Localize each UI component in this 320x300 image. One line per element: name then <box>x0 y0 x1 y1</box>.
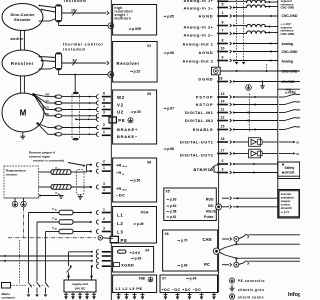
svg-text:I/O-GND: I/O-GND <box>282 80 296 84</box>
svg-text:+R: +R <box>116 162 121 167</box>
svg-text:3: 3 <box>222 168 224 172</box>
svg-text:included: included <box>63 46 85 51</box>
svg-text:Analog-Out 1: Analog-Out 1 <box>182 42 213 47</box>
svg-text:Resolver: Resolver <box>117 61 140 66</box>
svg-text:⇒ p.50: ⇒ p.50 <box>130 179 140 183</box>
svg-text:DIGITAL-IN1: DIGITAL-IN1 <box>185 110 214 115</box>
svg-text:2: 2 <box>103 123 105 127</box>
svg-text:9: 9 <box>222 56 224 60</box>
svg-text:PSTOP: PSTOP <box>196 95 214 100</box>
svg-text:stepper: stepper <box>281 199 291 203</box>
svg-text:Infogl: Infogl <box>288 292 300 298</box>
svg-text:⇒ p.68: ⇒ p.68 <box>164 147 175 151</box>
svg-text:3: 3 <box>103 111 105 115</box>
svg-text:⇒ p.69: ⇒ p.69 <box>178 264 188 268</box>
svg-text:10: 10 <box>221 47 225 51</box>
svg-text:chassis grou: chassis grou <box>238 288 264 292</box>
svg-text:⇒ p.71: ⇒ p.71 <box>281 210 290 214</box>
svg-text:and/or: and/or <box>11 37 25 41</box>
svg-text:Di: Di <box>297 152 300 156</box>
svg-text:1: 1 <box>103 166 105 170</box>
svg-text:included: included <box>64 0 86 3</box>
svg-text:to DGND: to DGND <box>285 90 296 94</box>
svg-text:CNC-GND: CNC-GND <box>282 50 299 54</box>
svg-text:−R: −R <box>116 170 121 175</box>
svg-text:BRAKE+: BRAKE+ <box>117 127 138 132</box>
svg-text:⇒ p.70: ⇒ p.70 <box>178 239 188 243</box>
svg-text:V2: V2 <box>46 99 50 103</box>
svg-text:Analog-In 1+: Analog-In 1+ <box>183 0 213 3</box>
svg-text:Analog-Out 2: Analog-Out 2 <box>182 59 213 64</box>
svg-text:Bint: Bint <box>123 189 128 192</box>
svg-text:V2: V2 <box>117 103 124 108</box>
svg-text:18: 18 <box>219 77 223 81</box>
svg-text:5: 5 <box>222 3 224 7</box>
svg-text:N3: N3 <box>55 229 57 231</box>
svg-text:U2: U2 <box>46 106 50 110</box>
svg-text:2: 2 <box>222 159 224 163</box>
svg-text:SSI: SSI <box>208 204 214 208</box>
svg-text:control: control <box>281 203 290 207</box>
svg-text:DGND: DGND <box>198 77 213 82</box>
svg-text:encoder: encoder <box>281 192 291 196</box>
svg-text:DIGITAL-OUT2: DIGITAL-OUT2 <box>180 153 214 158</box>
svg-text:DIGITAL-OUT1: DIGITAL-OUT1 <box>180 140 214 145</box>
svg-text:ROD: ROD <box>206 198 214 202</box>
svg-text:PE: PE <box>121 238 128 243</box>
svg-text:2: 2 <box>103 217 105 221</box>
svg-text:4: 4 <box>103 104 105 108</box>
svg-text:6: 6 <box>103 91 105 95</box>
svg-text:Bext: Bext <box>123 165 128 168</box>
svg-text:X8: X8 <box>147 161 151 165</box>
svg-text:U2: U2 <box>117 110 124 115</box>
svg-text:⇒ p.52: ⇒ p.52 <box>130 70 140 74</box>
svg-text:W2: W2 <box>46 93 50 97</box>
svg-text:L3: L3 <box>117 229 124 234</box>
svg-text:CNC-GND: CNC-GND <box>282 70 299 74</box>
svg-text:6: 6 <box>222 21 224 25</box>
svg-text:X5: X5 <box>166 190 170 194</box>
svg-text:+R: +R <box>116 186 121 191</box>
svg-text:5: 5 <box>103 98 105 102</box>
svg-text:−DC: −DC <box>116 192 125 197</box>
svg-text:+24V: +24V <box>130 250 141 255</box>
svg-text:1: 1 <box>103 207 105 211</box>
svg-text:N1: N1 <box>55 210 57 212</box>
svg-text:14: 14 <box>221 100 225 104</box>
svg-text:PE-connectio: PE-connectio <box>238 279 265 283</box>
svg-text:...: ... <box>19 140 21 143</box>
svg-text:AGND: AGND <box>198 50 213 55</box>
svg-text:W2: W2 <box>117 95 125 100</box>
svg-text:PC: PC <box>204 262 210 267</box>
svg-text:+DC −DC +DC −DC: +DC −DC +DC −DC <box>162 288 202 292</box>
svg-text:1: 1 <box>103 130 105 134</box>
svg-text:Analog-In 2+: Analog-In 2+ <box>183 25 213 30</box>
svg-text:L1: L1 <box>117 213 124 218</box>
svg-text:24V DC: 24V DC <box>75 286 86 290</box>
svg-text:ENABLE: ENABLE <box>193 127 214 132</box>
svg-text:12: 12 <box>221 116 225 120</box>
svg-text:drive/AS: drive/AS <box>281 206 292 210</box>
svg-text:X2: X2 <box>147 44 151 48</box>
svg-text:multiturn: multiturn <box>115 17 132 21</box>
svg-text:7: 7 <box>222 29 224 33</box>
svg-text:16: 16 <box>221 137 225 141</box>
svg-text:8: 8 <box>222 39 224 43</box>
svg-text:X7: X7 <box>162 277 166 281</box>
svg-text:Analog: Analog <box>282 59 294 63</box>
svg-text:XGND: XGND <box>121 263 134 268</box>
svg-text:Safety: Safety <box>285 166 295 170</box>
svg-text:11: 11 <box>221 108 225 112</box>
svg-text:3: 3 <box>103 182 105 186</box>
svg-text:NSTOP: NSTOP <box>196 102 214 107</box>
svg-text:L2: L2 <box>117 221 124 226</box>
svg-text:circuit: circuit <box>285 171 296 175</box>
svg-text:CAN: CAN <box>202 237 211 242</box>
svg-text:X9: X9 <box>147 92 151 96</box>
svg-text:⇒ p.67: ⇒ p.67 <box>164 107 175 111</box>
svg-text:⇒ p.63: ⇒ p.63 <box>167 198 177 202</box>
svg-text:Encoder: Encoder <box>14 17 31 22</box>
svg-text:Analog-In 1−: Analog-In 1− <box>183 6 213 11</box>
svg-text:CNC-GND: CNC-GND <box>281 32 295 36</box>
svg-text:evaluation: evaluation <box>281 195 295 199</box>
svg-text:Pulse: Pulse <box>204 215 213 219</box>
svg-text:⇒ p.49: ⇒ p.49 <box>131 257 141 261</box>
svg-text:Analog: Analog <box>282 42 294 46</box>
svg-text:15: 15 <box>221 125 225 129</box>
svg-text:Resolver: Resolver <box>11 61 34 66</box>
svg-text:CNC-GND: CNC-GND <box>282 14 299 18</box>
svg-text:Analog-In 2−: Analog-In 2− <box>183 33 213 38</box>
svg-text:⇒ p.61: ⇒ p.61 <box>167 215 177 219</box>
svg-text:17: 17 <box>221 149 225 153</box>
svg-text:AGND: AGND <box>198 14 213 19</box>
svg-text:⇒ p.64: ⇒ p.64 <box>167 204 177 208</box>
svg-text:⇒ p.66: ⇒ p.66 <box>164 51 175 55</box>
svg-text:resistor: resistor <box>6 173 18 177</box>
svg-text:X0B: X0B <box>139 277 146 281</box>
svg-text:8: 8 <box>73 59 75 63</box>
svg-text:Di: Di <box>297 140 300 144</box>
svg-text:4: 4 <box>103 188 105 192</box>
svg-text:N2: N2 <box>55 219 57 221</box>
svg-text:Mis./Si: Mis./Si <box>206 210 217 214</box>
svg-text:⇒ p.49: ⇒ p.49 <box>133 222 144 226</box>
svg-text:M: M <box>20 109 27 118</box>
svg-text:⇒ p.50: ⇒ p.50 <box>131 110 141 114</box>
svg-text:13: 13 <box>221 92 225 96</box>
svg-text:contactor: contactor <box>2 295 17 299</box>
svg-text:1: 1 <box>222 11 224 15</box>
svg-text:DIGITAL-IN2: DIGITAL-IN2 <box>185 118 214 123</box>
svg-text:2: 2 <box>103 160 105 164</box>
svg-text:3: 3 <box>103 226 105 230</box>
svg-text:resistor is connected: resistor is connected <box>33 159 64 163</box>
svg-text:PE: PE <box>118 118 125 123</box>
svg-text:PE: PE <box>46 112 50 116</box>
svg-text:⇒ p.58: ⇒ p.58 <box>167 210 177 214</box>
svg-text:shield conne: shield conne <box>238 296 264 300</box>
svg-text:⇒ p.49: ⇒ p.49 <box>186 277 196 281</box>
svg-text:X0A: X0A <box>141 210 149 214</box>
svg-text:CNC-GND: CNC-GND <box>281 6 295 10</box>
svg-text:L1 L2 L3 PE: L1 L2 L3 PE <box>116 286 143 291</box>
svg-text:⇒ p.65: ⇒ p.65 <box>164 15 175 19</box>
svg-text:X6: X6 <box>165 232 169 236</box>
svg-text:⇒ p.53ff: ⇒ p.53ff <box>129 27 142 31</box>
svg-text:X4: X4 <box>145 249 149 253</box>
svg-text:BRAKE−: BRAKE− <box>117 134 138 139</box>
